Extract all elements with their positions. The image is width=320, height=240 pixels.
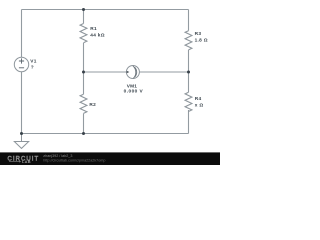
svg-text:R3: R3 <box>195 31 202 37</box>
svg-text:LAB: LAB <box>22 159 31 164</box>
svg-text:1.8 Ω: 1.8 Ω <box>195 37 208 43</box>
svg-text:R1: R1 <box>90 26 97 32</box>
svg-text:R2: R2 <box>89 102 96 108</box>
svg-text:R4: R4 <box>195 96 202 102</box>
svg-text:V1: V1 <box>30 59 36 65</box>
svg-text:?: ? <box>31 65 34 71</box>
svg-text:0.000 V: 0.000 V <box>124 88 144 94</box>
svg-text:http://circuitlab.com/c/pma22a: http://circuitlab.com/c/pma22a2k7omp <box>43 158 105 162</box>
svg-text:x Ω: x Ω <box>195 102 204 108</box>
svg-text:44 kΩ: 44 kΩ <box>90 32 105 38</box>
